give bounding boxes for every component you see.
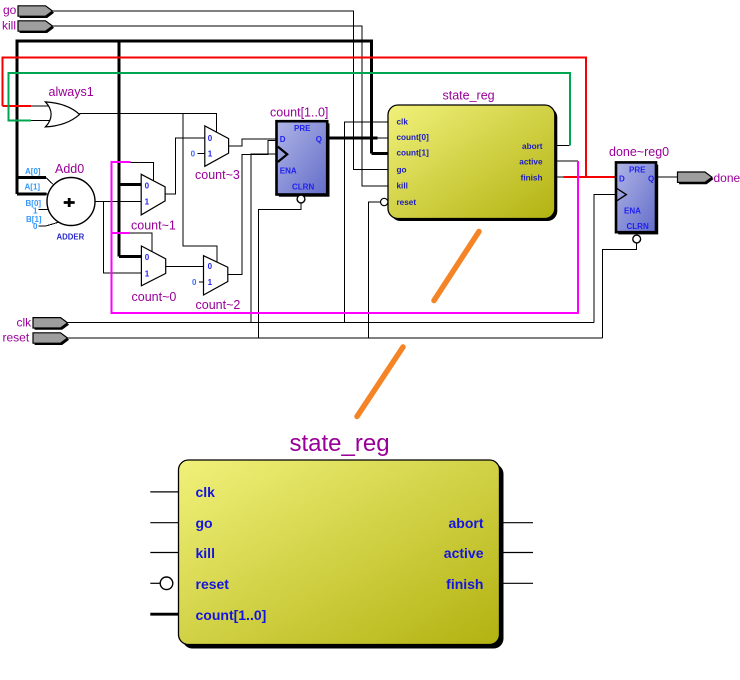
svg-text:clk: clk <box>196 484 216 500</box>
svg-text:A[0]: A[0] <box>25 167 41 176</box>
svg-text:A[1]: A[1] <box>25 183 41 192</box>
svg-text:Q: Q <box>316 135 322 144</box>
wire reset to done~reg0 CLRN <box>603 243 637 338</box>
wire count~2 output to register D <box>228 141 277 275</box>
svg-text:count~1: count~1 <box>131 219 176 233</box>
wire thick bus mid vertical <box>118 40 121 257</box>
register done~reg0 <box>609 145 669 243</box>
op-amp always1 OR gate <box>45 85 93 127</box>
svg-text:CLRN: CLRN <box>627 222 649 231</box>
wire count~0 select (from active net) <box>130 233 153 252</box>
wire done~reg0 Q to done pin <box>656 176 678 178</box>
svg-text:1: 1 <box>145 197 150 206</box>
wire thick stub state_reg count[1] <box>371 152 388 155</box>
svg-text:count~3: count~3 <box>195 168 240 182</box>
svg-text:finish: finish <box>446 576 483 592</box>
wire Add0 output branch to count~0 input 1 <box>104 201 142 273</box>
wire adder B[0] const 1 <box>38 209 50 211</box>
svg-text:finish: finish <box>521 174 543 183</box>
wire A[0] diagonal into adder <box>46 178 53 185</box>
svg-text:Q: Q <box>648 174 654 183</box>
wire A[1] into adder <box>46 193 50 195</box>
svg-text:CLRN: CLRN <box>292 183 314 192</box>
svg-text:1: 1 <box>33 206 38 215</box>
wire const 0 dash count~2 <box>199 281 204 283</box>
wire reset to state_reg reset bubble <box>369 202 381 338</box>
state machine state_reg (zoomed symbol) <box>150 430 533 649</box>
svg-text:0: 0 <box>145 253 150 262</box>
svg-text:ENA: ENA <box>280 166 297 175</box>
wire const 0 dash count~3 <box>198 152 205 154</box>
callout orange line lower <box>357 347 403 417</box>
svg-text:PRE: PRE <box>629 165 646 174</box>
wire count[0] thin stub into state_reg <box>378 137 389 139</box>
svg-text:clk: clk <box>17 315 33 329</box>
svg-text:ENA: ENA <box>624 207 641 216</box>
register count[1..0] <box>270 106 330 203</box>
wire thick bus right vertical <box>370 40 373 154</box>
wire clk rail <box>65 322 594 324</box>
wire count~0 output to count~2 input 0 <box>166 266 204 268</box>
mux count~3 <box>191 126 240 182</box>
input pin go <box>3 3 54 18</box>
svg-text:count[0]: count[0] <box>397 133 430 142</box>
wire thick Q output bus <box>327 136 377 139</box>
wire active stub <box>555 160 578 162</box>
mux count~1 <box>131 174 176 232</box>
svg-text:count[1]: count[1] <box>397 149 430 158</box>
svg-text:go: go <box>3 3 17 17</box>
svg-text:abort: abort <box>449 515 484 531</box>
svg-text:count~2: count~2 <box>196 298 241 312</box>
mux count~0 <box>132 246 177 304</box>
wire adder B[1] const 0 <box>38 222 60 226</box>
svg-text:D: D <box>619 174 625 183</box>
wire thick bus left vertical to adder <box>16 40 19 194</box>
wire red feedback net (finish to always1) <box>3 58 617 178</box>
svg-text:state_reg: state_reg <box>290 430 390 457</box>
input pin reset <box>3 330 70 345</box>
svg-text:0: 0 <box>33 222 38 231</box>
wire clk to state_reg clk <box>345 122 389 323</box>
svg-text:0: 0 <box>145 181 150 190</box>
callout orange line upper <box>434 232 479 301</box>
wire finish stub <box>555 176 564 178</box>
wire thick stub adder A[1] <box>17 192 46 195</box>
svg-text:abort: abort <box>522 142 543 151</box>
wire kill net: pin to state_reg kill input <box>53 26 389 186</box>
svg-text:active: active <box>519 157 543 166</box>
wire OR input stub top <box>31 105 50 107</box>
svg-text:always1: always1 <box>49 85 94 99</box>
wire thick stub count~1 input 0 <box>119 183 141 186</box>
wire always1 branch to count~2 select <box>183 114 217 263</box>
wire thick stub adder A[0] <box>17 176 46 179</box>
wire Add0 output to count~1 input 1 <box>95 200 141 202</box>
input pin kill <box>2 19 54 33</box>
svg-text:Add0: Add0 <box>55 162 84 176</box>
svg-text:0: 0 <box>208 134 213 143</box>
svg-text:count~0: count~0 <box>132 290 177 304</box>
svg-text:kill: kill <box>397 182 408 191</box>
wire go net: pin to state_reg go input <box>53 11 389 170</box>
svg-text:0: 0 <box>191 150 196 159</box>
wire reset rail <box>67 337 603 339</box>
svg-text:1: 1 <box>208 278 213 287</box>
svg-text:reset: reset <box>397 198 417 207</box>
wire thick bus rail top <box>16 40 371 43</box>
svg-text:clk: clk <box>397 118 409 127</box>
svg-text:1: 1 <box>208 150 213 159</box>
svg-text:count[1..0]: count[1..0] <box>270 106 328 120</box>
svg-text:reset: reset <box>196 576 230 592</box>
svg-text:state_reg: state_reg <box>443 89 495 103</box>
mux count~2 <box>192 256 240 312</box>
wire thick stub count~0 input 0 <box>119 255 141 258</box>
wire clk to count reg clock <box>251 154 277 323</box>
svg-text:go: go <box>196 515 213 531</box>
svg-text:count[1..0]: count[1..0] <box>196 607 267 623</box>
svg-text:0: 0 <box>192 278 197 287</box>
state machine state_reg (top instance) <box>381 89 558 222</box>
svg-text:PRE: PRE <box>294 124 311 133</box>
svg-text:done: done <box>714 171 740 185</box>
wire count~3 output to register D <box>229 139 277 146</box>
wire OR input stub bottom <box>31 120 50 122</box>
svg-text:active: active <box>444 545 484 561</box>
svg-text:go: go <box>397 165 407 174</box>
svg-text:kill: kill <box>196 545 215 561</box>
svg-text:0: 0 <box>208 262 213 271</box>
wire magenta net (active to mux selects) <box>112 161 578 313</box>
svg-text:1: 1 <box>145 270 150 279</box>
wire count~1 output to count~3 input 0 <box>165 138 205 194</box>
adder Add0 <box>25 162 96 242</box>
wire count~1 select (from active net) <box>130 162 153 181</box>
svg-text:ADDER: ADDER <box>57 233 85 242</box>
wire reset to count reg CLRN <box>259 203 301 338</box>
svg-text:reset: reset <box>3 330 30 344</box>
wire clk to done~reg0 clock <box>594 195 616 323</box>
wire abort stub <box>555 144 570 146</box>
wire always1 output to count~3 select <box>80 114 217 132</box>
wire green feedback net (abort to always1) <box>9 73 571 145</box>
svg-text:done~reg0: done~reg0 <box>609 145 669 159</box>
input pin clk <box>17 315 70 330</box>
output pin done <box>678 171 740 185</box>
svg-text:kill: kill <box>2 19 16 33</box>
svg-text:D: D <box>280 135 286 144</box>
